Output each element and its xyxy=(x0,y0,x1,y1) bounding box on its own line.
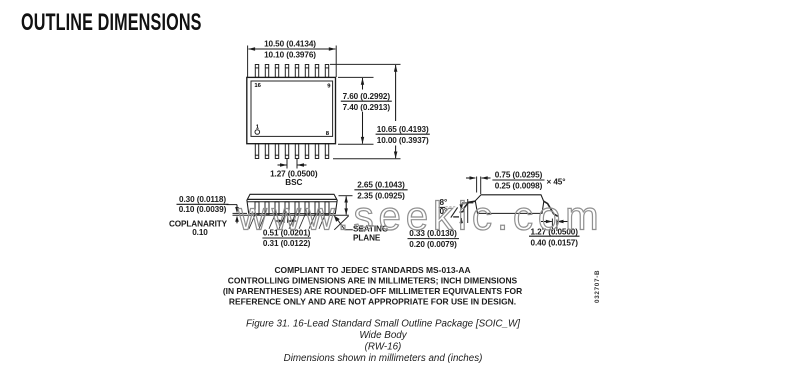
angle leader dashed xyxy=(446,206,456,208)
side view lead 6 xyxy=(305,202,309,215)
dim 10.65/10.00 bottom extension xyxy=(333,158,401,160)
dim 7.60/7.40 lower arrow line xyxy=(362,112,364,144)
lead width arrow left xyxy=(276,220,284,222)
side view lead 8 xyxy=(325,202,329,215)
lead thickness up arrow xyxy=(460,218,462,224)
dim 2.65/2.35 top extension xyxy=(339,195,353,197)
svg-text:032707-B: 032707-B xyxy=(594,270,601,303)
extra diagonal near leader (scan artifact X) xyxy=(334,216,348,230)
package body outer rect xyxy=(247,77,336,143)
lead angle ext vertical xyxy=(467,199,469,223)
svg-text:10.10 (0.3976): 10.10 (0.3976) xyxy=(264,51,316,60)
angle indicator diagonal xyxy=(451,207,458,217)
svg-text:0.10 (0.0039): 0.10 (0.0039) xyxy=(179,205,227,214)
svg-text:16: 16 xyxy=(254,83,261,89)
dimension 10.50/10.10 extension line right xyxy=(335,46,337,78)
dim 10.65/10.00 top extension xyxy=(330,63,401,65)
fraction bar 0.75/0.25 xyxy=(492,179,544,181)
end view right lead xyxy=(544,201,558,216)
pin 1 index circle xyxy=(255,130,260,135)
fraction bar 8/0 deg xyxy=(439,206,446,208)
side view lead 4 foot xyxy=(279,215,285,229)
pitch dim tick pin5 xyxy=(296,159,298,169)
svg-text:CONTROLLING DIMENSIONS ARE IN: CONTROLLING DIMENSIONS ARE IN MILLIMETER… xyxy=(228,275,518,285)
coplanarity down arrow xyxy=(236,205,238,209)
svg-text:Wide Body: Wide Body xyxy=(359,330,407,341)
svg-text:(RW-16): (RW-16) xyxy=(365,342,402,353)
dim 7.60/7.40 bottom extension xyxy=(338,143,374,145)
side view lead 2 foot xyxy=(259,215,265,229)
side view lead 3 foot xyxy=(269,215,275,229)
pin 6 lead (bottom row) xyxy=(305,144,308,159)
side view lead 1 xyxy=(255,202,259,215)
coplanarity leader from text xyxy=(227,204,238,206)
pin 2 lead (bottom row) xyxy=(265,144,268,159)
side view body parting line upper xyxy=(247,198,337,200)
dimension 10.50/10.10 extension line left xyxy=(247,46,249,78)
fraction bar 0.33/0.20 xyxy=(408,238,460,240)
svg-text:0.75 (0.0295): 0.75 (0.0295) xyxy=(495,171,543,180)
pin 10 lead (top row) xyxy=(315,65,318,78)
lead thickness ext horizontal xyxy=(462,202,473,204)
side view lead 8 foot xyxy=(319,215,325,229)
lead width dim tick right xyxy=(287,217,289,223)
side view lead 6 foot xyxy=(299,215,305,229)
dim 10.65/10.00 line lower xyxy=(395,146,397,159)
lead width dim tick left xyxy=(283,217,285,223)
fraction bar 0.30/0.10 xyxy=(177,203,229,205)
pin 1 lead (bottom row) xyxy=(255,144,258,159)
lead width arrow right xyxy=(288,220,296,222)
svg-text:2.65 (0.1043): 2.65 (0.1043) xyxy=(357,180,405,189)
svg-text:7.40 (0.2913): 7.40 (0.2913) xyxy=(343,103,391,112)
dimension 10.50/10.10 line xyxy=(249,48,336,50)
pin 8 lead (bottom row) xyxy=(325,144,328,159)
pin 11 lead (top row) xyxy=(305,65,308,78)
title OUTLINE DIMENSIONS xyxy=(21,9,202,36)
side view body xyxy=(247,194,337,213)
svg-text:(IN PARENTHESES) ARE ROUNDED-O: (IN PARENTHESES) ARE ROUNDED-OFF MILLIME… xyxy=(223,286,522,296)
svg-text:0.30 (0.0118): 0.30 (0.0118) xyxy=(179,195,226,204)
arrow right of 10.50 dim xyxy=(329,47,336,51)
pin 9 lead (top row) xyxy=(325,65,328,78)
svg-text:0.25 (0.0098): 0.25 (0.0098) xyxy=(495,181,543,190)
foot dim arrow left xyxy=(541,221,552,223)
side view lead 3 xyxy=(275,202,279,215)
end view body xyxy=(475,195,544,214)
fraction bar 7.60/7.40 xyxy=(341,100,392,102)
pin 16 lead (top row) xyxy=(255,65,258,78)
fraction bar 10.65/10.00 xyxy=(376,133,430,135)
dim 10.65/10.00 line upper xyxy=(395,65,397,121)
pin 12 lead (top row) xyxy=(295,65,298,78)
chamfer dim arrow right xyxy=(482,177,491,179)
side view lead 7 foot xyxy=(309,215,315,229)
dim 7.60/7.40 upper arrow line xyxy=(362,78,364,90)
side view lead 2 xyxy=(265,202,269,215)
coplanarity upper plane line xyxy=(233,212,248,214)
pins bottom row xyxy=(255,144,328,159)
svg-text:10.65 (0.4193): 10.65 (0.4193) xyxy=(377,125,429,134)
angle indicator arrow dash xyxy=(453,216,459,218)
side view lead 5 xyxy=(295,202,299,215)
end view left lead xyxy=(460,201,476,212)
svg-text:REFERENCE ONLY AND ARE NOT APP: REFERENCE ONLY AND ARE NOT APPROPRIATE F… xyxy=(229,297,516,307)
svg-text:www.seekic.com: www.seekic.com xyxy=(237,195,604,239)
chamfer dim ext line 1 xyxy=(476,177,478,193)
dim 7.60/7.40 top extension xyxy=(338,76,374,78)
pitch arrow right xyxy=(298,164,307,166)
seating plane leader arrowhead xyxy=(334,215,340,221)
svg-text:9: 9 xyxy=(327,83,331,89)
dim 2.65/2.35 arrow line xyxy=(345,196,347,214)
svg-text:BSC: BSC xyxy=(285,178,302,187)
foot dim ext line 2 xyxy=(556,220,558,232)
package body inner rect xyxy=(251,81,333,136)
side view lead 5 foot xyxy=(289,215,295,229)
foot dim ext line 1 xyxy=(551,219,553,232)
side view body lead-exit line xyxy=(247,201,337,203)
pin 7 lead (bottom row) xyxy=(315,144,318,159)
svg-text:Dimensions shown in millimeter: Dimensions shown in millimeters and (inc… xyxy=(284,353,483,364)
pin 4 lead (bottom row) xyxy=(285,144,288,159)
seating plane line xyxy=(233,214,349,216)
svg-text:0.20 (0.0079): 0.20 (0.0079) xyxy=(409,240,457,249)
pitch arrow left xyxy=(278,164,287,166)
svg-text:COMPLIANT TO JEDEC STANDARDS M: COMPLIANT TO JEDEC STANDARDS MS-013-AA xyxy=(274,265,470,275)
foot dim arrow right xyxy=(558,221,569,223)
chamfer dim ext line 2 xyxy=(480,177,482,195)
chamfer dim arrow left xyxy=(466,177,475,179)
pin 14 lead (top row) xyxy=(275,65,278,78)
fraction bar 1.27/0.40 xyxy=(529,235,580,237)
side view lead 1 foot xyxy=(249,215,255,229)
pin 5 lead (bottom row) xyxy=(295,144,298,159)
svg-text:× 45°: × 45° xyxy=(547,178,566,187)
fraction bar 2.65/2.35 xyxy=(354,189,407,191)
pin 3 lead (bottom row) xyxy=(275,144,278,159)
fraction bar 0.51/0.31 xyxy=(262,237,311,239)
arrow left of 10.50 dim xyxy=(248,47,255,51)
pin 15 lead (top row) xyxy=(265,65,268,78)
svg-text:Figure 31. 16-Lead Standard Sm: Figure 31. 16-Lead Standard Small Outlin… xyxy=(246,319,520,330)
coplanarity up arrow xyxy=(236,220,238,224)
svg-text:7.60 (0.2992): 7.60 (0.2992) xyxy=(343,92,391,101)
side view lead 4 xyxy=(285,202,289,215)
svg-text:10.00 (0.3937): 10.00 (0.3937) xyxy=(377,136,429,145)
svg-text:10.50 (0.4134): 10.50 (0.4134) xyxy=(264,40,316,49)
svg-text:OUTLINE DIMENSIONS: OUTLINE DIMENSIONS xyxy=(21,9,202,36)
svg-text:0.40 (0.0157): 0.40 (0.0157) xyxy=(530,238,578,247)
side view lead 7 xyxy=(315,202,319,215)
seating plane leader line xyxy=(336,218,353,230)
svg-text:0.31 (0.0122): 0.31 (0.0122) xyxy=(263,239,311,248)
lead thickness down arrow xyxy=(460,204,462,210)
pitch dim tick pin4 xyxy=(286,159,288,169)
pins top row xyxy=(255,65,328,78)
pin 13 lead (top row) xyxy=(285,65,288,78)
svg-text:0.10: 0.10 xyxy=(192,228,208,237)
